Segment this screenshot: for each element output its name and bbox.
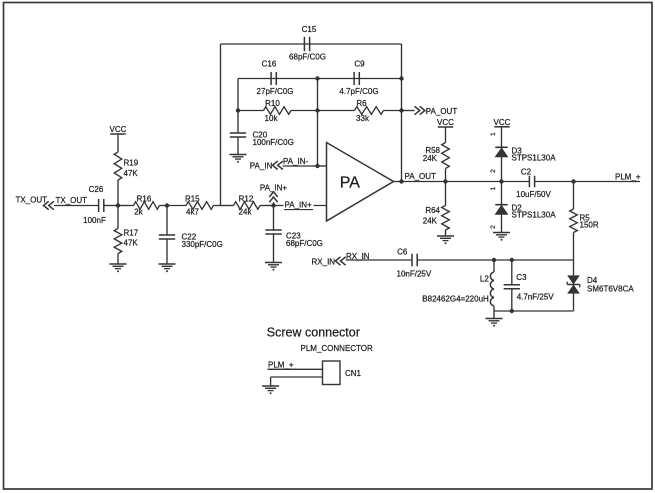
capacitor C16 bbox=[257, 60, 294, 97]
svg-text:R64: R64 bbox=[425, 206, 440, 215]
svg-text:10k: 10k bbox=[265, 114, 279, 123]
ground under C20 bbox=[230, 155, 247, 163]
svg-text:150R: 150R bbox=[580, 221, 599, 230]
wire to PA_OUT off-page bbox=[402, 110, 415, 112]
svg-text:TX_OUT: TX_OUT bbox=[16, 196, 48, 205]
capacitor C15 bbox=[289, 25, 326, 62]
junction node PA output / feedback bbox=[399, 179, 403, 183]
capacitor C6 bbox=[397, 248, 432, 279]
diode D2 bbox=[495, 204, 556, 220]
junction node D3/D2 bbox=[499, 179, 503, 183]
svg-text:PLM_+: PLM_+ bbox=[268, 360, 294, 369]
pin 1 of D2 bbox=[490, 186, 497, 190]
svg-text:L2: L2 bbox=[480, 275, 489, 284]
svg-text:4k7: 4k7 bbox=[186, 208, 199, 217]
svg-text:33k: 33k bbox=[356, 114, 370, 123]
svg-text:27pF/C0G: 27pF/C0G bbox=[257, 87, 294, 96]
wire VCC to D3 bbox=[501, 127, 503, 148]
net label PA_IN+ bbox=[284, 200, 314, 210]
op-amp PA amplifier bbox=[327, 143, 394, 222]
capacitor C23 bbox=[265, 206, 323, 263]
svg-text:47K: 47K bbox=[124, 239, 139, 248]
junction node R16/C22/R15 bbox=[165, 203, 169, 207]
wire C26 to node bbox=[104, 205, 118, 207]
wire connector pin 2 bbox=[271, 377, 323, 386]
junction node R5/PLM bbox=[571, 179, 575, 183]
power VCC for D3 bbox=[494, 118, 511, 127]
wire D3 to output line bbox=[501, 157, 503, 182]
svg-text:4.7nF/25V: 4.7nF/25V bbox=[517, 292, 555, 301]
svg-text:VCC: VCC bbox=[110, 125, 127, 134]
svg-text:24K: 24K bbox=[423, 154, 438, 163]
junction node C26/R19/R17/R16 bbox=[116, 203, 120, 207]
wire feedback right edge bbox=[401, 44, 403, 182]
capacitor C3 bbox=[504, 260, 555, 311]
junction node C16/C9 row middle bbox=[315, 76, 319, 80]
resistor R19 bbox=[114, 134, 139, 206]
ground under R17 bbox=[110, 264, 127, 272]
wire D4 to bottom rail bbox=[573, 294, 575, 311]
resistor R5 bbox=[570, 182, 599, 276]
diode D4 (TVS) bbox=[567, 275, 634, 293]
svg-text:PA: PA bbox=[340, 175, 360, 192]
off-page connector RX_IN bbox=[312, 257, 346, 267]
diode D3 bbox=[495, 146, 556, 162]
net label PA_OUT bbox=[405, 172, 437, 181]
svg-text:2: 2 bbox=[490, 225, 497, 229]
ground at connector bbox=[262, 386, 279, 394]
wire connector pin 1 bbox=[268, 368, 323, 370]
wire PA_IN+ to amplifier bbox=[274, 205, 327, 207]
junction node R10 row left bbox=[236, 108, 240, 112]
wire PA_OUT line bbox=[402, 181, 641, 183]
svg-text:VCC: VCC bbox=[437, 118, 454, 127]
svg-text:PLM_CONNECTOR: PLM_CONNECTOR bbox=[301, 344, 374, 353]
svg-text:10nF/25V: 10nF/25V bbox=[397, 269, 432, 278]
ground under C23 bbox=[265, 263, 282, 271]
wire feedback middle vertical bbox=[317, 79, 319, 167]
junction node R6 row right bbox=[399, 108, 403, 112]
svg-text:C6: C6 bbox=[397, 248, 408, 257]
svg-text:PA_OUT: PA_OUT bbox=[405, 172, 437, 181]
svg-text:CN1: CN1 bbox=[345, 369, 362, 378]
net label TX_OUT bbox=[56, 196, 88, 205]
svg-text:68pF/C0G: 68pF/C0G bbox=[286, 239, 323, 248]
svg-text:R16: R16 bbox=[137, 194, 152, 203]
svg-text:C9: C9 bbox=[354, 60, 365, 69]
svg-text:4.7pF/C0G: 4.7pF/C0G bbox=[339, 87, 378, 96]
pin 2 of D2 bbox=[490, 225, 497, 229]
capacitor C2 bbox=[516, 168, 551, 199]
resistor R64 bbox=[423, 182, 450, 237]
wire output line to D2 bbox=[501, 182, 503, 205]
ground under C22 bbox=[159, 264, 176, 272]
net label PLM_+ (connector) bbox=[268, 360, 298, 369]
svg-text:R17: R17 bbox=[124, 229, 139, 238]
junction node C3 top bbox=[510, 258, 514, 262]
svg-text:TX_OUT: TX_OUT bbox=[56, 196, 88, 205]
svg-text:VCC: VCC bbox=[494, 118, 511, 127]
net label PA_IN- bbox=[283, 157, 313, 166]
svg-text:C26: C26 bbox=[89, 185, 104, 194]
pin 1 of D3 bbox=[490, 132, 497, 136]
wire TX_OUT input net bbox=[54, 205, 98, 207]
svg-text:PA_IN: PA_IN bbox=[250, 162, 273, 171]
wire PA_IN- to amplifier bbox=[312, 165, 327, 167]
label PLM_CONNECTOR bbox=[301, 344, 374, 353]
svg-text:R6: R6 bbox=[356, 99, 367, 108]
svg-text:R19: R19 bbox=[124, 158, 139, 167]
ground under R64 bbox=[437, 236, 454, 244]
svg-text:Screw connector: Screw connector bbox=[267, 326, 360, 340]
wire C16/C9 row bbox=[238, 79, 402, 111]
net label PLM_+ bbox=[615, 172, 641, 181]
svg-text:330pF/C0G: 330pF/C0G bbox=[182, 240, 223, 249]
resistor R17 bbox=[114, 206, 139, 265]
svg-text:C2: C2 bbox=[521, 168, 532, 177]
svg-text:10uF/50V: 10uF/50V bbox=[516, 190, 551, 199]
svg-text:PA_IN-: PA_IN- bbox=[283, 157, 309, 166]
junction node C3 bottom bbox=[510, 309, 514, 313]
svg-text:R10: R10 bbox=[265, 99, 280, 108]
off-page connector PA_IN bbox=[250, 161, 283, 170]
svg-text:PLM_+: PLM_+ bbox=[615, 172, 641, 181]
svg-text:PA_IN+: PA_IN+ bbox=[285, 201, 313, 210]
svg-text:B82462G4=220uH: B82462G4=220uH bbox=[422, 295, 489, 304]
junction node PA_IN- bbox=[315, 164, 319, 168]
resistor R12 bbox=[221, 195, 274, 217]
wire D2 to ground bbox=[501, 214, 503, 232]
wire R10/R6 row bbox=[238, 110, 402, 112]
junction node C9 row right bbox=[399, 76, 403, 80]
off-page connector PA_OUT bbox=[415, 106, 458, 116]
svg-text:2: 2 bbox=[490, 169, 497, 173]
resistor R16 bbox=[118, 194, 167, 216]
pin 2 of D3 bbox=[490, 169, 497, 173]
svg-text:R15: R15 bbox=[185, 195, 200, 204]
wire PA output to feedback node bbox=[394, 181, 402, 183]
off-page connector TX_OUT bbox=[16, 196, 54, 210]
connector CN1 bbox=[323, 361, 362, 385]
resistor R15 bbox=[167, 195, 221, 217]
ground under D2 bbox=[493, 233, 510, 241]
svg-text:SM6T6V8CA: SM6T6V8CA bbox=[587, 285, 634, 294]
capacitor C9 bbox=[339, 60, 378, 97]
off-page connector PA_IN+ (vertical) bbox=[260, 183, 288, 205]
svg-text:1: 1 bbox=[490, 186, 497, 190]
power VCC for R19 bbox=[110, 125, 127, 134]
svg-text:STPS1L30A: STPS1L30A bbox=[512, 211, 557, 220]
wire feedback top row (C15 row) bbox=[221, 43, 402, 45]
junction node L2 top bbox=[492, 258, 496, 262]
ground under L2/C3 bbox=[486, 319, 503, 327]
svg-text:2k: 2k bbox=[134, 208, 143, 217]
wire RX_IN net bbox=[346, 259, 574, 261]
junction node PA_IN+ bbox=[271, 203, 275, 207]
net label RX_IN bbox=[346, 252, 370, 261]
svg-text:24K: 24K bbox=[423, 217, 438, 226]
svg-text:RX_IN: RX_IN bbox=[312, 257, 336, 266]
svg-text:R12: R12 bbox=[239, 195, 254, 204]
power VCC for R58 bbox=[437, 118, 454, 127]
svg-text:47K: 47K bbox=[124, 169, 139, 178]
svg-text:C15: C15 bbox=[302, 25, 317, 34]
svg-text:100nF/C0G: 100nF/C0G bbox=[253, 138, 294, 147]
svg-text:100nF: 100nF bbox=[83, 216, 106, 225]
heading Screw connector bbox=[267, 326, 360, 340]
wire feedback left edge bbox=[220, 44, 222, 206]
resistor R10 bbox=[264, 99, 292, 123]
svg-text:24k: 24k bbox=[239, 208, 253, 217]
capacitor C22 bbox=[159, 206, 223, 265]
capacitor C26 bbox=[83, 185, 106, 225]
junction node R58/R64 bbox=[443, 179, 447, 183]
svg-text:C16: C16 bbox=[262, 60, 277, 69]
svg-text:68pF/C0G: 68pF/C0G bbox=[289, 53, 326, 62]
capacitor C20 bbox=[230, 111, 294, 155]
junction node R10/R6 row middle bbox=[315, 108, 319, 112]
resistor R6 bbox=[355, 99, 384, 123]
resistor R58 bbox=[423, 127, 450, 182]
svg-text:STPS1L30A: STPS1L30A bbox=[512, 153, 557, 162]
svg-text:C3: C3 bbox=[516, 273, 527, 282]
inductor L2 bbox=[422, 260, 494, 311]
svg-text:PA_OUT: PA_OUT bbox=[426, 107, 458, 116]
svg-text:1: 1 bbox=[490, 132, 497, 136]
wire bottom rail bbox=[494, 311, 574, 319]
